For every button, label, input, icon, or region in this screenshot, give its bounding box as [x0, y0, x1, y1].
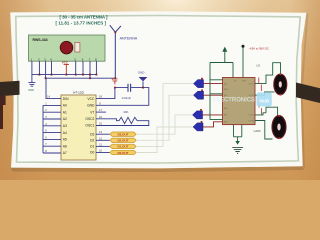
svg-text:13: 13 [99, 130, 102, 134]
svg-text:D0.OUT: D0.OUT [117, 151, 128, 155]
svg-text:4.8V to 36V DC: 4.8V to 36V DC [249, 46, 268, 50]
flag D0.OUT [110, 150, 136, 155]
svg-text:11: 11 [99, 142, 102, 146]
svg-text:10: 10 [99, 149, 102, 153]
svg-text:DIN: DIN [63, 97, 69, 101]
wire D3 to IN4 [136, 115, 192, 134]
motor M2 [272, 115, 286, 139]
svg-text:IN4: IN4 [224, 122, 227, 124]
wire VT pin 17 [96, 111, 106, 113]
svg-text:OSC2: OSC2 [85, 117, 94, 121]
svg-text:D0: D0 [90, 151, 94, 155]
svg-text:18: 18 [99, 95, 102, 99]
svg-text:A4: A4 [63, 131, 67, 135]
svg-text:A0: A0 [63, 104, 67, 108]
wire D2 to IN3 [136, 95, 193, 140]
svg-text:GND: GND [28, 88, 34, 92]
svg-text:33K: 33K [123, 110, 128, 114]
svg-text:A5: A5 [63, 138, 67, 142]
wire OUT2 to motor M1 [255, 92, 275, 95]
capacitor C1 [128, 84, 131, 92]
svg-text:VT: VT [90, 110, 94, 114]
wire OUT4 to motor M2 [255, 121, 273, 140]
wire A-pin bus [42, 105, 44, 153]
svg-text:15: 15 [99, 122, 102, 126]
ground (near C1) [138, 70, 148, 87]
svg-text:IN3: IN3 [224, 115, 227, 117]
svg-text:D2.OUT: D2.OUT [117, 139, 128, 143]
wire OUT3 to motor M2 [255, 107, 278, 116]
input arrow IN3 [193, 109, 203, 119]
svg-text:OUT4: OUT4 [249, 121, 254, 123]
svg-text:D3: D3 [90, 132, 94, 136]
wire IN4 to U2 [203, 122, 223, 127]
input arrow IN2 [194, 89, 204, 99]
power arrow (right supply) [222, 47, 227, 63]
IC U2 L293 [223, 78, 256, 125]
svg-text:EN1: EN1 [224, 89, 228, 91]
wire D0 to IN1 [136, 127, 193, 153]
svg-text:D3.OUT: D3.OUT [117, 133, 128, 137]
wire D3 [96, 133, 110, 135]
wire IN3 to U2 [203, 114, 223, 116]
battery node [242, 45, 245, 78]
wires address pins A0-A7 [43, 105, 61, 153]
RWS-434 SAW filter disc [60, 41, 73, 54]
svg-text:[ 30 - 35 cm ANTENNA ]: [ 30 - 35 cm ANTENNA ] [60, 14, 109, 19]
wire D2 [96, 139, 110, 141]
svg-text:A6: A6 [63, 144, 67, 148]
svg-text:VCC: VCC [111, 77, 118, 81]
wire IN1 to U2 [204, 83, 223, 85]
svg-text:A1: A1 [63, 110, 67, 114]
svg-text:14: 14 [47, 95, 50, 99]
antenna AE1 [110, 25, 121, 78]
wire IN2 to U2 [204, 94, 223, 96]
svg-text:A2: A2 [63, 117, 67, 121]
resistor R1 33K [96, 110, 149, 126]
wire supply bracket [210, 63, 233, 120]
svg-text:HUB: HUB [259, 98, 270, 103]
svg-text:IN1: IN1 [224, 83, 227, 85]
svg-text:GND: GND [138, 70, 146, 74]
RWS-434 small component [75, 43, 80, 53]
svg-text:A7: A7 [63, 151, 67, 155]
junction nodes on rail [114, 87, 116, 89]
svg-text:U2: U2 [256, 63, 260, 67]
svg-text:[ 11.81 - 13.77 INCHES ]: [ 11.81 - 13.77 INCHES ] [56, 21, 107, 26]
svg-text:RWS-434: RWS-434 [33, 38, 48, 42]
wire D0 [96, 152, 110, 154]
wire OUT1 to motor M1 [255, 63, 281, 84]
svg-text:OUT3: OUT3 [249, 115, 254, 117]
svg-text:0.01uF: 0.01uF [122, 96, 132, 100]
svg-text:OUT1: OUT1 [249, 83, 254, 85]
svg-text:ELECTRONICS: ELECTRONICS [213, 98, 256, 104]
wire VCC pin 18 [96, 88, 115, 99]
svg-text:OSC1: OSC1 [85, 124, 94, 128]
junction nodes on buses [39, 74, 117, 79]
flag D3.OUT [110, 132, 136, 137]
svg-text:A3: A3 [63, 124, 67, 128]
power VCC (decoder) [111, 77, 118, 84]
svg-text:EN2: EN2 [224, 108, 228, 110]
wire DIN riser [46, 78, 61, 98]
pin numbers 1-8 [45, 101, 47, 153]
motor M2 brush wires [259, 101, 262, 115]
svg-text:16: 16 [99, 115, 102, 119]
wire D1 [96, 145, 110, 147]
wire bus 1 [32, 74, 97, 76]
input arrow IN4 [193, 121, 203, 131]
svg-text:D1: D1 [90, 145, 94, 149]
svg-text:HT-12D: HT-12D [73, 91, 84, 95]
svg-text:VCC: VCC [87, 97, 95, 101]
svg-text:L293: L293 [254, 129, 261, 133]
power VCC (module) [62, 61, 69, 75]
wire D1 to IN2 [136, 84, 193, 147]
flag D1.OUT [110, 144, 136, 149]
svg-text:GND: GND [87, 104, 95, 108]
svg-text:ANTENNA: ANTENNA [120, 37, 138, 41]
IC U1 HT-12D [61, 91, 96, 160]
flag D2.OUT [110, 138, 136, 143]
antenna tip node [114, 31, 116, 33]
svg-text:17: 17 [99, 108, 102, 112]
ground (U2) [232, 125, 243, 154]
module pin wires [32, 61, 97, 78]
motor M1 [274, 73, 287, 95]
ground (module, left) [28, 75, 35, 92]
input arrow IN1 [194, 78, 204, 88]
svg-text:D1.OUT: D1.OUT [117, 145, 128, 149]
svg-text:12: 12 [99, 136, 102, 140]
wire VCC-GND rail [96, 88, 149, 106]
svg-text:D2: D2 [90, 139, 94, 143]
motor M1 brush wires [259, 78, 262, 92]
module RWS-434 [29, 35, 106, 61]
watermark ELECTRONICS HUB [213, 92, 272, 106]
wire bus 2 [46, 77, 116, 79]
